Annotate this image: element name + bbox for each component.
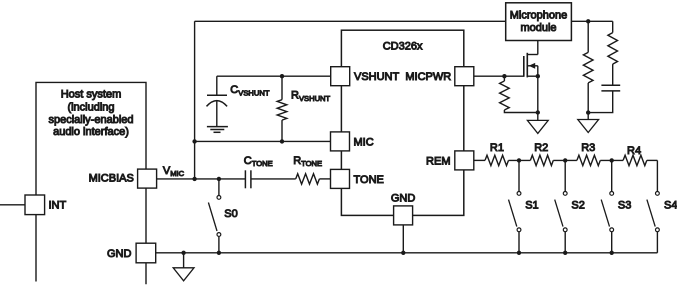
wire R1 to R2: [509, 159, 531, 161]
junction gate node: [502, 74, 506, 78]
wire REM to R1: [474, 159, 485, 161]
ground Q1 source: [527, 120, 548, 133]
svg-text:GND: GND: [391, 192, 416, 204]
switch S0: [208, 179, 220, 253]
resistor R3: [577, 155, 600, 165]
svg-text:CD326x: CD326x: [383, 41, 423, 53]
label S4: [664, 200, 677, 212]
label R2: [534, 142, 548, 154]
junction mic module feed: [586, 19, 590, 23]
pin TONE: [331, 169, 350, 188]
svg-text:MICPWR: MICPWR: [405, 71, 451, 83]
pin MIC: [331, 132, 350, 151]
label R3: [581, 142, 595, 154]
wire VSHUNT net: [217, 75, 331, 77]
ground host: [173, 253, 194, 281]
wire R2 to R3: [553, 159, 577, 161]
svg-text:CTONE: CTONE: [244, 155, 273, 168]
label VMIC: [163, 165, 185, 178]
label MICBIAS: [89, 173, 134, 185]
junction S0 bottom: [217, 251, 221, 255]
transistor Q1: [524, 41, 538, 78]
svg-text:R2: R2: [534, 142, 548, 154]
pin GND host: [136, 243, 156, 263]
svg-text:S2: S2: [571, 200, 584, 212]
junction S3 bottom: [610, 251, 614, 255]
svg-text:CVSHUNT: CVSHUNT: [230, 84, 270, 97]
wire MICPWR to gate: [474, 75, 524, 77]
wire RTONE to TONE pin: [319, 178, 330, 180]
capacitor CTONE: [245, 170, 251, 188]
junction RVSHUNT top: [280, 74, 284, 78]
svg-text:S4: S4: [664, 200, 677, 212]
svg-text:S1: S1: [525, 200, 538, 212]
label S2: [571, 200, 584, 212]
svg-text:MICBIAS: MICBIAS: [89, 173, 134, 185]
svg-text:S3: S3: [618, 200, 631, 212]
resistor R1: [485, 155, 509, 165]
junction right ground: [586, 110, 590, 114]
resistor RTONE: [296, 174, 320, 184]
resistor gate pulldown: [500, 76, 538, 112]
switch S4: [647, 160, 659, 252]
svg-text:Host system: Host system: [61, 89, 122, 101]
junction VMIC riser: [192, 177, 196, 181]
label R4: [627, 145, 641, 157]
svg-text:Microphone: Microphone: [510, 10, 567, 22]
label S0: [224, 208, 237, 220]
svg-text:MIC: MIC: [354, 136, 374, 148]
wire R4 to S4: [647, 159, 658, 161]
svg-text:audio interface): audio interface): [53, 126, 129, 138]
resistor mic bias: [583, 21, 593, 112]
capacitor mic module: [601, 85, 620, 91]
svg-text:TONE: TONE: [354, 174, 384, 186]
svg-text:RTONE: RTONE: [293, 155, 322, 168]
junction S2 top: [563, 158, 567, 162]
resistor R4: [623, 155, 647, 165]
switch S2: [555, 160, 567, 252]
label TONE pin: [354, 174, 384, 186]
pin VSHUNT: [331, 67, 350, 86]
svg-text:R1: R1: [490, 142, 504, 154]
pin GND CD326x: [394, 206, 413, 225]
wire CTONE to RTONE: [251, 178, 296, 180]
wire Q1 source to ground: [537, 76, 539, 120]
junction S2 bottom: [563, 251, 567, 255]
switch S1: [509, 160, 521, 252]
wire MICBIAS to CTONE (VMIC): [157, 178, 246, 180]
junction host ground: [181, 251, 185, 255]
host system box: [36, 82, 146, 284]
label VSHUNT pin: [354, 71, 400, 83]
junction source-pulldown: [536, 110, 540, 114]
resistor mic output: [608, 21, 618, 85]
capacitor CVSHUNT: [207, 76, 228, 126]
label CTONE: [244, 155, 273, 168]
label INT: [49, 200, 67, 212]
wire ground bus: [156, 252, 658, 254]
label GND host: [107, 248, 132, 260]
svg-text:REM: REM: [426, 155, 450, 167]
wire GND pin stub: [402, 225, 404, 253]
wire R3 to R4: [600, 159, 623, 161]
junction RVSHUNT bottom: [280, 139, 284, 143]
label CD326x: [383, 41, 423, 53]
wire VMIC riser: [194, 21, 196, 179]
label MIC pin: [354, 136, 374, 148]
label S1: [525, 200, 538, 212]
svg-text:S0: S0: [224, 208, 237, 220]
junction S1 top: [517, 158, 521, 162]
wire mic module right: [571, 20, 612, 22]
junction GND stub: [401, 251, 405, 255]
svg-text:R4: R4: [627, 145, 641, 157]
switch S3: [601, 160, 613, 252]
ground earth CVSHUNT: [207, 127, 228, 133]
svg-text:R3: R3: [581, 142, 595, 154]
pin MICPWR: [455, 67, 474, 86]
junction S1 bottom: [517, 251, 521, 255]
pin MICBIAS: [138, 169, 157, 188]
svg-text:RVSHUNT: RVSHUNT: [291, 90, 331, 103]
pin INT: [25, 195, 45, 215]
ground mic module: [578, 113, 599, 133]
svg-text:(including: (including: [67, 101, 114, 113]
svg-text:VMIC: VMIC: [163, 165, 185, 178]
pin REM: [455, 151, 474, 170]
label R1: [490, 142, 504, 154]
label microphone module: [510, 10, 567, 35]
wire VMIC top feed: [195, 20, 506, 22]
svg-text:specially-enabled: specially-enabled: [49, 114, 134, 126]
svg-text:VSHUNT: VSHUNT: [354, 71, 400, 83]
wire MIC net: [195, 140, 331, 142]
label S3: [618, 200, 631, 212]
resistor R2: [530, 155, 553, 165]
label CVSHUNT: [230, 84, 270, 97]
IC CD326x box: [341, 30, 463, 215]
host system label: [49, 89, 134, 138]
wire INT lead: [0, 204, 25, 206]
junction riser-MIC: [192, 139, 196, 143]
label REM pin: [426, 155, 450, 167]
label RTONE: [293, 155, 322, 168]
svg-text:module: module: [520, 22, 556, 34]
svg-text:GND: GND: [107, 248, 132, 260]
junction S3 top: [610, 158, 614, 162]
label RVSHUNT: [291, 90, 331, 103]
svg-text:INT: INT: [49, 200, 67, 212]
resistor RVSHUNT: [277, 76, 287, 141]
microphone module box: [506, 3, 572, 41]
wire mic cap to ground: [588, 91, 613, 113]
label MICPWR pin: [405, 71, 451, 83]
junction S0 tap: [217, 177, 221, 181]
junction Q1 source node: [536, 74, 540, 78]
label GND CD326x: [391, 192, 416, 204]
